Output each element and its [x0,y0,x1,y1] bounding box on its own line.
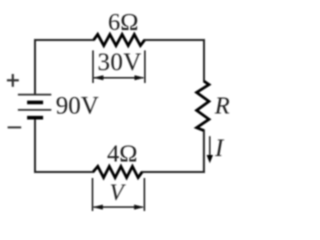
svg-text:90V: 90V [56,92,99,119]
svg-text:R: R [214,92,230,119]
svg-text:I: I [214,135,225,162]
svg-text:V: V [110,180,127,205]
svg-text:4Ω: 4Ω [107,141,137,168]
svg-text:30V: 30V [97,49,141,76]
svg-text:6Ω: 6Ω [108,9,138,36]
